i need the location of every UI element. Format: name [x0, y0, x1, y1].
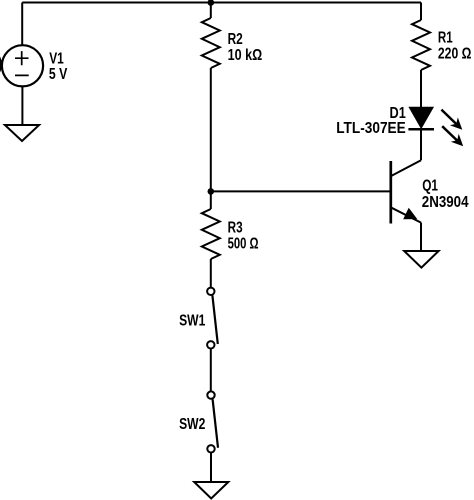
node base junction — [208, 188, 215, 195]
resistor R1 — [412, 3, 430, 108]
wire D1 to Q1 collector — [420, 131, 422, 161]
wire V1 bottom to ground — [21, 86, 23, 125]
wire top rail — [22, 2, 421, 4]
node junction top rail / R2 — [208, 0, 215, 6]
switch SW2 — [207, 391, 218, 452]
D1 light arrow 2 — [442, 126, 463, 146]
resistor R3 — [202, 191, 220, 287]
resistor R2 — [202, 3, 220, 192]
svg-text:220 Ω: 220 Ω — [438, 46, 472, 63]
wire SW2 to ground — [210, 453, 212, 483]
ground bottom — [194, 482, 228, 499]
wire Q1 emitter to ground — [420, 223, 422, 251]
wire V1 top to rail — [21, 3, 23, 46]
svg-text:R2: R2 — [228, 31, 243, 48]
LED D1 — [408, 107, 434, 129]
svg-text:10 kΩ: 10 kΩ — [228, 47, 263, 64]
svg-text:500 Ω: 500 Ω — [228, 236, 259, 253]
svg-text:2N3904: 2N3904 — [422, 194, 469, 211]
clipped element at left edge — [0, 57, 2, 73]
ground below V1 — [5, 125, 39, 141]
ground below Q1 — [404, 251, 438, 268]
svg-text:Q1: Q1 — [422, 178, 438, 195]
svg-text:V1: V1 — [49, 51, 64, 68]
svg-text:SW2: SW2 — [179, 416, 205, 433]
switch SW1 — [207, 288, 218, 349]
D1 light arrow 1 — [441, 110, 462, 130]
wire SW1 to SW2 — [210, 349, 212, 392]
voltage source V1 — [2, 45, 43, 86]
svg-text:R1: R1 — [438, 30, 453, 47]
svg-text:R3: R3 — [228, 219, 243, 236]
svg-text:SW1: SW1 — [179, 312, 205, 329]
svg-text:LTL-307EE: LTL-307EE — [336, 120, 406, 137]
wire node to Q1 base — [211, 190, 391, 192]
transistor Q1 — [390, 160, 421, 223]
svg-text:5 V: 5 V — [49, 66, 68, 83]
